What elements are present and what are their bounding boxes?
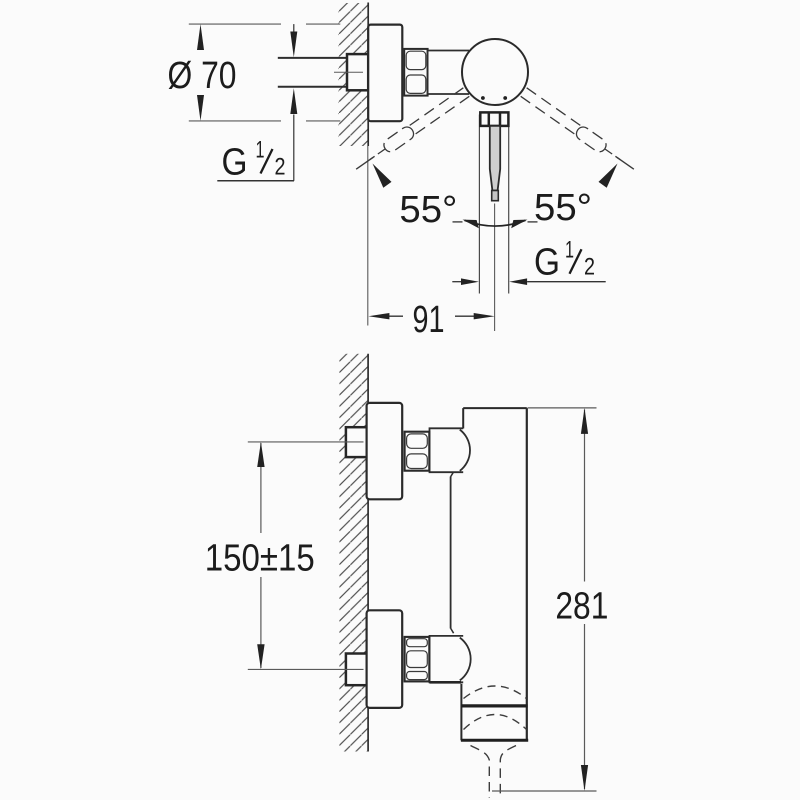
outlet block — [461, 684, 528, 741]
swivel arc arrowhead right — [511, 220, 527, 229]
faucet body (side view) — [463, 408, 527, 740]
dashed lever ghost (rotated 55 deg left) — [352, 87, 470, 175]
svg-text:281: 281 — [555, 586, 608, 628]
svg-text:2: 2 — [275, 154, 286, 181]
indicator dot left — [481, 96, 485, 100]
lower connector bottom thick line — [430, 681, 462, 684]
G 1/2 label (supply, top-left) — [217, 24, 297, 183]
upper union nut (side view) — [405, 432, 430, 471]
dimension 91 — [368, 299, 494, 341]
dashed internal arc upper — [464, 686, 527, 699]
union nut (top view) — [404, 49, 427, 96]
wall hatching (top view) — [339, 3, 369, 146]
lower union nut (side view) — [405, 637, 430, 682]
lever shaft (top view) — [490, 126, 500, 191]
lever tip — [492, 191, 499, 201]
svg-text:150±15: 150±15 — [205, 538, 315, 580]
wall face line (top view) — [367, 3, 369, 147]
svg-text:Ø 70: Ø 70 — [168, 55, 237, 97]
shower hose (dashed) left curve — [471, 746, 490, 799]
upper pipe centerline / 150 extension — [248, 441, 364, 443]
svg-text:1: 1 — [565, 237, 574, 264]
svg-text:2: 2 — [584, 254, 595, 281]
faucet centerline (top view) — [494, 204, 496, 332]
dashed internal arc lower — [464, 715, 527, 730]
svg-text:G: G — [222, 141, 248, 183]
dimension 281 — [492, 408, 608, 791]
lever collar (top view) — [480, 112, 508, 126]
wall face extension line for 91 dim — [367, 146, 369, 326]
escutcheon (top view) — [368, 25, 402, 122]
supply pipe (top view) — [278, 57, 348, 59]
connector neck (top view) — [428, 51, 469, 95]
upper escutcheon (side view) — [367, 403, 403, 499]
lower in-wall nipple (side view) — [346, 654, 368, 686]
lower connector bulge — [460, 638, 471, 681]
swivel arc arrowhead left — [463, 220, 479, 229]
svg-text:G: G — [534, 242, 560, 284]
upper connector neck — [430, 428, 464, 472]
lower escutcheon (side view) — [367, 610, 403, 708]
dimension Ø70 — [168, 24, 341, 121]
lever swivel arc — [465, 220, 526, 226]
shower hose (dashed) right curve — [500, 746, 516, 799]
svg-text:91: 91 — [413, 299, 445, 341]
G 1/2 label (outlet, right) — [452, 237, 605, 285]
55 deg angle arrow left — [373, 164, 392, 188]
lower connector neck — [430, 636, 464, 682]
indicator dot right — [503, 96, 507, 100]
svg-text:1: 1 — [256, 137, 265, 164]
upper connector bulge — [460, 430, 470, 471]
wall hatching (side view) — [339, 354, 368, 752]
swivel arc stub left — [453, 221, 463, 223]
wall face line (side view) — [367, 354, 369, 752]
in-wall pipe nipple (top view) — [347, 54, 368, 90]
swivel arc stub right — [528, 221, 538, 223]
svg-text:55°: 55° — [399, 189, 457, 231]
pipe centerline (top view) — [334, 71, 363, 73]
svg-text:55°: 55° — [534, 187, 592, 229]
body edge between unions — [450, 477, 452, 629]
lower pipe centerline / 150 extension — [248, 668, 364, 670]
dimension 150±15 — [205, 442, 315, 670]
upper in-wall nipple (side view) — [346, 427, 368, 457]
valve body circle (top view) — [462, 39, 528, 105]
dashed lever ghost (rotated 55 deg right) — [520, 87, 638, 175]
outlet silhouette lines (top view) — [478, 115, 480, 294]
55 deg angle arrow right — [599, 164, 618, 188]
